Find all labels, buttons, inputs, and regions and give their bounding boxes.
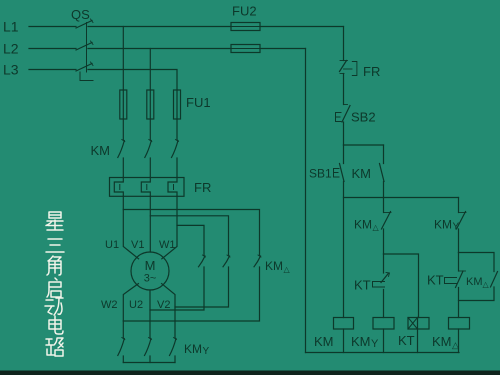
KM delta contact [227,255,230,257]
caption 启 [47,278,61,297]
svg-text:KM: KM [434,218,452,232]
coil KM delta [449,318,470,330]
svg-text:L1: L1 [3,19,19,35]
coil KMY [373,318,394,330]
wire delta bus V1 [150,216,228,256]
wire U1 [123,196,138,258]
svg-text:QS: QS [71,7,90,22]
wire L2 to FU2 [88,48,231,50]
svg-text:FU2: FU2 [232,4,257,19]
wire delta bus W1 [177,225,204,255]
svg-text:L3: L3 [3,62,19,78]
svg-text:Y: Y [203,346,210,357]
fuse FU2 b [231,45,260,53]
FR heater element [141,178,150,197]
star point bus [123,362,175,364]
KMY contact [122,338,125,340]
caption 动 [45,298,63,315]
KM main contact [149,140,152,142]
svg-text:V1: V1 [131,239,144,251]
KMY contact [174,338,177,340]
wire delta bus U2 [150,267,204,310]
fuse FU1 [120,90,127,119]
motor M circle [131,252,169,290]
QS blade [76,21,92,29]
fuse FU2 a [231,23,260,31]
KM main contact [122,140,125,142]
svg-text:SB2: SB2 [351,110,376,125]
svg-text:KM: KM [184,342,202,356]
QS linkage [86,23,88,73]
wire KT coil branch [384,254,419,318]
thermal contact FR NC [340,60,348,62]
wire U2 [149,290,151,338]
svg-text:KM: KM [352,166,372,181]
pushbutton SB2 stop [344,104,348,106]
caption 角 [47,256,61,275]
KMY contact [149,338,152,340]
svg-text:KM: KM [265,259,283,273]
svg-text:U2: U2 [129,299,143,311]
caption 星 [46,212,63,230]
svg-text:△: △ [373,223,380,232]
svg-text:KM: KM [91,143,111,158]
coil KM [334,318,354,330]
contact KM delta self-hold [459,253,495,272]
wire delta bus V2 [175,267,229,307]
bottom dark strip [0,371,500,375]
bottom control bus [306,352,460,354]
wire W1 [162,196,177,258]
wire L3 branch [88,70,177,91]
svg-text:KM: KM [432,334,452,349]
svg-text:3~: 3~ [144,273,157,285]
svg-text:M: M [145,258,156,273]
svg-text:SB1: SB1 [309,167,332,181]
wire control hot [343,27,345,61]
svg-text:△: △ [483,280,490,289]
wire delta bus W2 [123,267,259,321]
wire control return [305,49,307,353]
svg-text:KM: KM [351,334,371,349]
svg-text:KT: KT [354,278,371,293]
FR heater element [168,178,177,197]
svg-text:U1: U1 [105,239,119,251]
control bus [344,197,459,199]
svg-text:KM: KM [466,276,483,288]
FR heater element [114,178,123,197]
svg-text:W1: W1 [159,239,176,251]
svg-text:L2: L2 [3,41,19,57]
wire L2 drop [149,49,151,91]
svg-text:Y: Y [371,338,379,350]
fuse FU1 [147,90,154,119]
thermal relay FR box [110,178,185,197]
wire branch KM hold [344,144,384,146]
svg-text:KM: KM [314,334,334,349]
wire L1 to FU2 [88,26,231,28]
wire V1 [149,196,151,252]
caption 路 [46,338,63,356]
QS blade [76,64,92,72]
wire delta bus U1 [123,210,259,256]
wire W2 [123,284,138,338]
svg-text:FR: FR [194,180,211,195]
svg-text:KM: KM [354,218,372,232]
wire V2 [162,284,175,338]
QS blade [76,43,92,51]
caption 星三角启动电路 white [45,212,64,356]
wire L1 in [29,26,76,28]
KM main contact [176,140,179,142]
svg-text:V2: V2 [157,299,170,311]
KM delta contact [258,255,261,257]
svg-text:KT: KT [398,333,415,348]
QS handle [80,72,93,81]
svg-text:FU1: FU1 [186,95,211,110]
caption 电 [49,316,63,334]
wire L3 in [29,69,76,71]
svg-text:W2: W2 [101,299,118,311]
caption 三 [46,239,64,252]
wire L1 drop [122,27,124,91]
svg-text:FR: FR [363,64,380,79]
svg-text:KT: KT [427,273,444,288]
wire L2 in [29,48,76,50]
KM delta contact [203,255,206,257]
svg-text:△: △ [284,265,291,274]
fuse FU1 [174,90,181,119]
coil KT time relay [408,318,429,330]
